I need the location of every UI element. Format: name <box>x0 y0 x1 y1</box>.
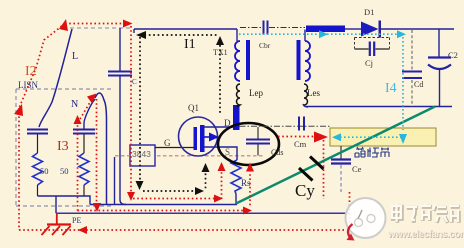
svg-text:Q1: Q1 <box>188 103 199 113</box>
svg-text:Lep: Lep <box>249 88 263 98</box>
wire top rail <box>134 29 237 33</box>
wire resistor A bottom lead <box>37 185 39 196</box>
svg-text:S: S <box>225 147 230 157</box>
wire chassis earth diagonal green <box>236 107 435 204</box>
resistor 50 ohm B <box>79 153 89 185</box>
wire line L <box>39 29 72 127</box>
svg-text:D1: D1 <box>364 7 374 17</box>
capacitor Cy plates <box>299 157 324 181</box>
heat sink box <box>330 128 436 146</box>
capacitor LISN branch B <box>73 99 95 153</box>
svg-text:PE: PE <box>72 216 81 225</box>
wire drain link <box>204 126 233 128</box>
loop I3 dotted current path <box>74 94 255 215</box>
svg-text:Cy: Cy <box>295 181 315 200</box>
LISN enclosure dashed box <box>16 89 114 206</box>
loop red dotted via Cm to heatsink <box>278 132 350 230</box>
wire PE lead <box>55 196 57 213</box>
watermark brand glyphs shadow <box>393 205 460 223</box>
capacitor Cd <box>402 30 422 107</box>
wire secondary output thick bus <box>306 26 345 33</box>
svg-text:TX1: TX1 <box>213 48 228 57</box>
capacitor Cds <box>246 127 270 156</box>
wire resistor B bottom lead <box>83 185 85 196</box>
svg-text:Cds: Cds <box>271 148 283 157</box>
svg-text:I4: I4 <box>385 81 397 96</box>
svg-text:LISN: LISN <box>18 80 39 90</box>
svg-text:L: L <box>72 51 78 62</box>
watermark brand glyphs white <box>392 204 459 222</box>
wire earth rail <box>56 212 349 214</box>
wire diode to output <box>381 28 454 30</box>
svg-text:I1: I1 <box>184 37 196 52</box>
svg-text:N: N <box>71 99 78 110</box>
svg-text:50: 50 <box>40 166 49 176</box>
transformer TX1 secondary core bar <box>297 40 301 80</box>
inductor Les leakage <box>304 84 308 105</box>
inductor Lep leakage <box>237 84 241 107</box>
wire output right drop <box>438 29 440 57</box>
wire drain node dash-dot to heatsink <box>240 125 331 127</box>
svg-text:Les: Les <box>307 88 320 98</box>
loop I2 dotted current path <box>14 19 345 234</box>
wire Rs bottom lead <box>235 194 237 205</box>
watermark logo circle <box>346 198 386 241</box>
svg-text:I2: I2 <box>25 64 37 79</box>
wire bus to diode <box>345 28 361 30</box>
transformer TX1 primary winding <box>235 41 240 81</box>
svg-text:Cd: Cd <box>414 80 423 89</box>
svg-text:3843: 3843 <box>132 149 151 159</box>
transistor Q1 MOSFET <box>179 117 220 156</box>
op-amp U1 controller 3843 box <box>130 145 155 166</box>
transformer TX1 secondary winding <box>305 41 310 81</box>
wire source to Rs <box>204 147 237 160</box>
capacitor LISN branch A <box>27 130 48 154</box>
wire branch B to return rail <box>86 196 90 205</box>
svg-text:G: G <box>164 138 171 148</box>
loop I4 cyan dotted current path <box>239 30 407 144</box>
transformer TX1 primary core bar <box>246 40 250 80</box>
capacitor C2 electrolytic <box>428 58 451 107</box>
svg-text:Cbr: Cbr <box>259 41 271 50</box>
diode D1 <box>361 21 381 38</box>
wire line N arch <box>95 93 107 205</box>
svg-text:C2: C2 <box>448 50 458 60</box>
wire return rail <box>90 204 237 206</box>
svg-text:Cj: Cj <box>365 58 373 68</box>
capacitor Cx <box>108 28 132 205</box>
resistor 50 ohm A <box>33 153 43 185</box>
highlight ellipse around Cds <box>218 123 279 165</box>
wire controller ground pin <box>114 157 116 205</box>
resistor Rs <box>231 160 241 194</box>
transformer TX1 secondary stub <box>304 30 306 42</box>
wire drain thick bar <box>233 105 240 130</box>
transformer TX1 primary stub <box>236 29 238 41</box>
svg-text:I3: I3 <box>57 139 69 154</box>
wire gate drive <box>155 147 194 149</box>
wire secondary bottom hook <box>303 104 308 107</box>
svg-text:Cm: Cm <box>294 139 307 149</box>
svg-text:Ce: Ce <box>352 164 362 174</box>
ground PE earth symbol red <box>42 213 72 235</box>
svg-text:www.elecfans.com: www.elecfans.com <box>387 229 464 240</box>
loop I1 dotted current path <box>136 31 225 195</box>
svg-text:C: C <box>132 78 137 86</box>
label heat sink (CJK glyph strokes) <box>355 147 389 157</box>
capacitor Cbr <box>240 21 305 35</box>
capacitor Ce <box>331 146 351 192</box>
capacitor Cm <box>299 117 304 131</box>
wire branch join <box>38 195 87 197</box>
mains cable dashed wire <box>63 27 133 29</box>
wire output bottom rail <box>306 106 452 108</box>
capacitor Cj with dashed outline <box>355 38 390 57</box>
svg-text:50: 50 <box>60 166 69 176</box>
wire source parasitic dashed <box>115 155 263 157</box>
